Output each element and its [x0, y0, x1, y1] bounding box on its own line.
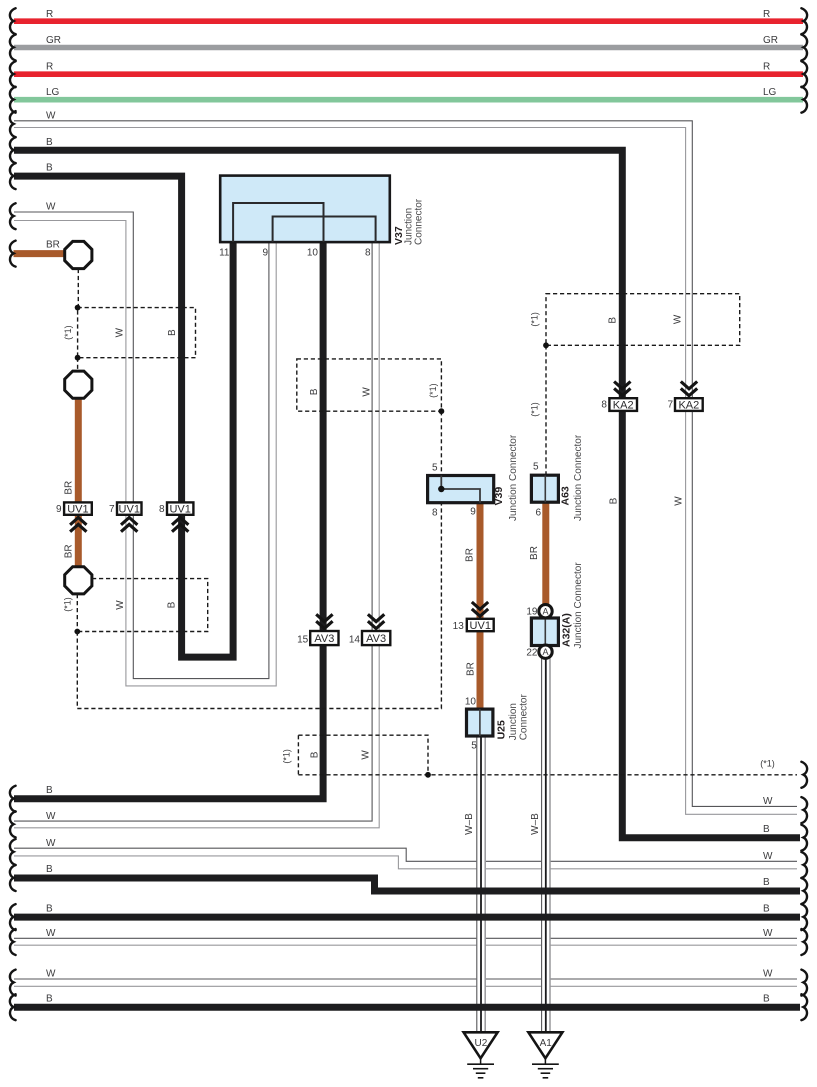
- ground triangle A1: [528, 1032, 562, 1058]
- svg-text:W: W: [46, 811, 56, 822]
- svg-text:W–B: W–B: [530, 813, 541, 835]
- svg-text:11: 11: [219, 248, 230, 259]
- svg-text:8: 8: [601, 400, 607, 411]
- junction dot upper-left 2: [75, 355, 81, 361]
- wire break left y=150.2: [10, 137, 16, 163]
- svg-text:W: W: [46, 110, 56, 121]
- wire break right y=917.1: [801, 904, 807, 930]
- svg-text:W: W: [46, 928, 56, 939]
- svg-text:B: B: [763, 824, 770, 835]
- svg-text:KA2: KA2: [678, 399, 699, 411]
- svg-text:UV1: UV1: [119, 504, 140, 516]
- svg-text:9: 9: [56, 504, 62, 515]
- svg-text:A32(A): A32(A): [560, 613, 572, 647]
- svg-text:R: R: [46, 9, 53, 20]
- wire break left y=216.2: [10, 203, 16, 229]
- wire break left y=99.7: [10, 87, 16, 113]
- svg-text:UV1: UV1: [470, 620, 491, 632]
- svg-text:B: B: [763, 904, 770, 915]
- svg-text:5: 5: [533, 462, 539, 473]
- dashed box around B/W wires at KA2: [546, 294, 740, 346]
- svg-text:BR: BR: [64, 481, 75, 495]
- wire break left y=878.0: [10, 865, 16, 891]
- wire break right y=1007.2: [801, 994, 807, 1020]
- svg-text:B: B: [46, 994, 53, 1005]
- dashed run exits right edge: [298, 774, 797, 776]
- svg-text:W: W: [763, 928, 773, 939]
- connector 8 KA2: [609, 398, 637, 411]
- wire break right y=837.7: [801, 825, 807, 851]
- wire W from V37 pin 8 down through AV3 pin 14, exits left: [14, 242, 372, 821]
- wire break left y=942.0: [10, 929, 16, 955]
- chevron down at KA2 pin 7: [681, 388, 697, 395]
- svg-text:Connector: Connector: [518, 693, 529, 740]
- svg-text:AV3: AV3: [314, 633, 334, 645]
- chevron down at UV1 pin 13: [472, 609, 488, 616]
- dashed link octagon1 to junction dot: [77, 269, 79, 308]
- svg-text:W: W: [763, 969, 773, 980]
- wire break left y=798.7: [10, 786, 16, 812]
- wire break right y=74.2: [801, 61, 807, 87]
- svg-text:5: 5: [471, 741, 477, 752]
- svg-text:B: B: [46, 785, 53, 796]
- wire break left y=1007.2: [10, 994, 16, 1020]
- svg-text:9: 9: [470, 507, 476, 518]
- V39 internal bus pin5/8 to pin 9: [441, 476, 480, 503]
- svg-text:8: 8: [432, 507, 438, 518]
- shield octagon 3: [65, 567, 92, 594]
- wire break right y=942.0: [801, 929, 807, 955]
- junction dot at A63 dashed branch: [543, 342, 549, 348]
- svg-text:A1: A1: [540, 1038, 553, 1049]
- svg-text:6: 6: [535, 508, 541, 519]
- wire break left y=852.0: [10, 839, 16, 865]
- ground triangle U2: [464, 1032, 498, 1058]
- svg-text:BR: BR: [465, 548, 476, 562]
- wire break right y=982.6: [801, 970, 807, 996]
- svg-text:BR: BR: [529, 546, 540, 560]
- svg-text:7: 7: [667, 400, 673, 411]
- junction connector A63 (box): [531, 475, 558, 502]
- svg-text:A: A: [542, 647, 548, 657]
- wire B stepped, exits left and right: [14, 878, 800, 891]
- wire BR below UV1 pin 9 to octagon3: [75, 515, 82, 568]
- junction dot bottom dashed box: [425, 772, 431, 778]
- svg-text:BR: BR: [64, 544, 75, 558]
- dashed box around W/B wires upper-left: [78, 308, 196, 358]
- svg-text:U25: U25: [496, 720, 508, 739]
- wire GR (top 2nd): [14, 45, 803, 51]
- wire W full width lower 2: [14, 978, 797, 980]
- svg-text:Junction Connector: Junction Connector: [573, 434, 584, 521]
- wire break left y=176.1: [10, 163, 16, 189]
- svg-text:B: B: [609, 497, 620, 504]
- svg-text:Junction Connector: Junction Connector: [508, 434, 519, 521]
- ground symbol A1: [544, 1058, 546, 1063]
- V37 internal bus pin 9 to pin 8: [273, 217, 376, 243]
- dashed run from octagon3 box to V39 pin 8: [77, 503, 441, 709]
- wire W full width lower 1: [14, 937, 797, 939]
- svg-text:(*1): (*1): [63, 325, 73, 340]
- svg-text:(*1): (*1): [760, 759, 775, 769]
- wire break right y=891.0: [801, 878, 807, 904]
- wire W 2nd, down through UV1 pin 7, U-turn, up to V37 pin 9: [14, 212, 269, 679]
- wire R (top 3rd): [14, 71, 803, 77]
- dashed box around B/W wires center: [297, 359, 442, 411]
- svg-text:8: 8: [159, 504, 165, 515]
- shield octagon 1: [65, 241, 92, 268]
- wire B from V37 pin 10 down through AV3 pin 15, exits left: [14, 242, 323, 799]
- svg-text:B: B: [310, 751, 321, 758]
- svg-text:W: W: [115, 327, 126, 337]
- svg-text:LG: LG: [46, 87, 60, 98]
- svg-text:B: B: [46, 163, 53, 174]
- wire break left y=124.1: [10, 111, 16, 137]
- svg-text:B: B: [46, 864, 53, 875]
- wire break right y=47.5: [801, 35, 807, 61]
- svg-text:UV1: UV1: [169, 504, 190, 516]
- junction dot octagon3 box: [74, 629, 80, 635]
- svg-text:B: B: [46, 137, 53, 148]
- svg-text:B: B: [46, 904, 53, 915]
- svg-text:BR: BR: [466, 662, 477, 676]
- wire break right y=865.0: [801, 852, 807, 878]
- svg-text:Connector: Connector: [414, 198, 425, 245]
- svg-text:BR: BR: [46, 240, 60, 251]
- wire break left y=21.2: [10, 8, 16, 34]
- dashed box at octagon 3: [77, 579, 207, 632]
- chevron down at AV3 pin 14: [368, 621, 384, 628]
- dashed link into A63 pin 5: [545, 345, 547, 475]
- svg-text:(*1): (*1): [530, 312, 540, 327]
- dashed box around B/W wires bottom: [298, 735, 428, 775]
- wire break left y=47.5: [10, 35, 16, 61]
- wire B full width 2 (bottom): [14, 1004, 800, 1011]
- connector 7 KA2: [675, 398, 703, 411]
- svg-text:B: B: [763, 994, 770, 1005]
- wire break right y=21.2: [801, 8, 807, 34]
- wire break left y=982.6: [10, 970, 16, 996]
- svg-text:W: W: [673, 314, 684, 324]
- wire B top, runs right then down through KA2 pin 8, exits right bottom: [14, 150, 800, 838]
- wire W stepped, exits left and right: [14, 848, 797, 861]
- svg-text:B: B: [167, 329, 178, 336]
- svg-text:GR: GR: [46, 35, 61, 46]
- svg-text:B: B: [309, 388, 320, 395]
- svg-text:W: W: [763, 851, 773, 862]
- svg-text:W: W: [46, 838, 56, 849]
- svg-text:Junction: Junction: [508, 703, 519, 740]
- chevron down at AV3 pin 15: [316, 621, 332, 628]
- wire W top, runs right then down through KA2 pin 7, exits right bottom: [14, 121, 797, 807]
- wire BR UV1 pin 13 down to U25 pin 10: [477, 631, 484, 709]
- wire break right y=99.7: [801, 87, 807, 113]
- wire BR A63 pin 6 down to A32(A) pin 19: [542, 502, 549, 605]
- svg-text:13: 13: [453, 621, 465, 632]
- wire break right y=774.8: [801, 762, 807, 788]
- chevron up at UV1 pin 8: [172, 518, 188, 525]
- wire W-B from U25 pin 5 down to ground U2: [476, 736, 485, 1032]
- chevron up at UV1 pin 7: [121, 518, 137, 525]
- wire break right y=810.1: [801, 797, 807, 823]
- svg-text:15: 15: [297, 634, 309, 645]
- dashed link to octagon 2: [77, 358, 79, 372]
- svg-text:UV1: UV1: [67, 504, 88, 516]
- svg-text:KA2: KA2: [613, 399, 634, 411]
- svg-text:W: W: [362, 387, 373, 397]
- wire break left y=253.6: [10, 241, 16, 267]
- connector 13 UV1: [467, 619, 494, 631]
- svg-text:(*1): (*1): [428, 383, 438, 398]
- svg-text:LG: LG: [763, 87, 777, 98]
- junction connector A32(A) (box): [531, 618, 558, 646]
- svg-text:14: 14: [349, 634, 361, 645]
- svg-text:U2: U2: [475, 1038, 488, 1049]
- A32(A) pin 22 ring terminal A: [539, 645, 552, 658]
- wire BR to shield octagon: [14, 250, 67, 257]
- svg-text:B: B: [763, 877, 770, 888]
- svg-text:V39: V39: [493, 487, 505, 506]
- chevron down at KA2 pin 8: [614, 388, 630, 395]
- svg-text:W–B: W–B: [464, 813, 475, 835]
- wire LG (top 4th): [14, 97, 803, 103]
- wire B 2nd, down through UV1 pin 8, U-turn, up to V37 pin 11: [14, 176, 233, 657]
- svg-text:10: 10: [465, 697, 477, 708]
- svg-text:Junction Connector: Junction Connector: [573, 562, 584, 649]
- svg-text:8: 8: [365, 248, 371, 259]
- svg-text:A63: A63: [560, 486, 572, 505]
- svg-text:W: W: [46, 202, 56, 213]
- svg-text:10: 10: [307, 248, 319, 259]
- svg-text:7: 7: [109, 504, 115, 515]
- connector 7 UV1: [117, 502, 142, 514]
- dashed link into V39 pin 5: [440, 411, 442, 475]
- ground symbol U2: [480, 1058, 482, 1063]
- V39 internal junction dot: [438, 486, 444, 492]
- svg-text:19: 19: [526, 607, 538, 618]
- svg-text:W: W: [763, 796, 773, 807]
- connector 15 AV3: [310, 631, 338, 645]
- svg-text:R: R: [763, 62, 770, 73]
- svg-text:(*1): (*1): [530, 402, 540, 417]
- svg-text:R: R: [46, 62, 53, 73]
- svg-text:W: W: [360, 750, 371, 760]
- svg-text:W: W: [46, 969, 56, 980]
- svg-text:W: W: [115, 600, 126, 610]
- A32(A) pin 19 ring terminal A: [539, 605, 552, 618]
- wire BR V39 pin 9 down to UV1 pin 13: [477, 503, 484, 619]
- wire B full width 1: [14, 914, 800, 921]
- wire BR octagon2 to UV1 pin 9: [75, 396, 82, 502]
- V37 internal bus pin 11 to pin 10: [233, 203, 323, 242]
- svg-text:(*1): (*1): [63, 597, 73, 612]
- svg-text:5: 5: [432, 462, 438, 473]
- wire break left y=824.4: [10, 811, 16, 837]
- connector 8 UV1: [167, 502, 193, 514]
- connector 14 AV3: [362, 631, 390, 645]
- svg-text:(*1): (*1): [281, 749, 291, 764]
- chevron up at UV1 pin 9: [70, 518, 86, 525]
- junction dot upper-left 1: [75, 305, 81, 311]
- shield octagon 2: [65, 371, 92, 398]
- wire R (top 1st): [14, 18, 803, 24]
- junction connector V39 (box): [428, 476, 494, 503]
- svg-text:B: B: [608, 317, 619, 324]
- wire break left y=74.2: [10, 61, 16, 87]
- svg-text:9: 9: [262, 248, 268, 259]
- wire W-B from A32(A) pin 22 down to ground A1: [541, 658, 550, 1032]
- svg-text:A: A: [542, 606, 548, 616]
- junction connector V37 (box): [220, 176, 390, 243]
- svg-text:W: W: [674, 496, 685, 506]
- junction connector U25 (box): [467, 709, 493, 736]
- svg-text:R: R: [763, 9, 770, 20]
- svg-text:22: 22: [526, 648, 538, 659]
- wire break left y=917.1: [10, 904, 16, 930]
- svg-text:GR: GR: [763, 35, 778, 46]
- connector 9 UV1: [64, 502, 92, 514]
- svg-text:AV3: AV3: [366, 633, 386, 645]
- svg-text:B: B: [167, 601, 178, 608]
- junction dot at V39 dashed branch: [439, 408, 445, 414]
